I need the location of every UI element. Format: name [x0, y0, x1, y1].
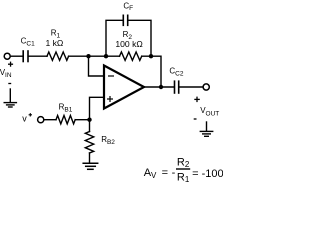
capacitor CC2 [175, 81, 179, 93]
wire CC1 to R1 [29, 55, 47, 57]
wire RB2 to ground [89, 153, 91, 163]
svg-text:=: = [162, 167, 168, 179]
svg-text:1 kΩ: 1 kΩ [45, 38, 63, 48]
svg-text:100 kΩ: 100 kΩ [115, 39, 143, 49]
node dot feedback left [104, 54, 108, 58]
op-amp plus sign [108, 97, 113, 102]
op-amp minus sign [109, 75, 114, 77]
wire non-inverting input [90, 97, 104, 119]
ground input source [4, 89, 16, 107]
wire RB1 to node [75, 119, 89, 121]
wire R1 to feedback node [69, 55, 120, 57]
wire input to CC1 [11, 55, 23, 57]
wire feedback right vertical [129, 20, 151, 56]
wire inverting input [89, 56, 104, 76]
resistor RB2 [85, 132, 93, 154]
wire output [144, 86, 174, 88]
equation fraction bar [176, 168, 190, 170]
resistor R1 [47, 52, 69, 60]
resistor R2 [120, 52, 142, 60]
node dot inverting tap [86, 54, 90, 58]
capacitor CF [123, 15, 127, 25]
resistor RB1 [56, 116, 75, 124]
label VOUT plus [194, 97, 200, 103]
node dot bias [87, 118, 91, 122]
svg-text:v: v [22, 114, 27, 124]
label VIN plus [8, 62, 13, 67]
node dot output junction [159, 85, 163, 89]
wire feedback left vertical [106, 20, 123, 56]
wire CC2 to output terminal [180, 86, 203, 88]
wire node to RB2 [89, 120, 91, 132]
terminal V+ [38, 117, 44, 123]
ground RB2 [83, 163, 98, 169]
wire R2 to output corner [142, 56, 161, 87]
op-amp U1 [104, 66, 144, 109]
capacitor CC1 [23, 51, 28, 62]
label VIN minus [8, 83, 11, 85]
input terminal VIN [4, 53, 10, 59]
wire V+ to RB1 [44, 119, 56, 121]
ground output [200, 122, 212, 136]
svg-text:-: - [172, 167, 176, 179]
node dot feedback right [149, 54, 153, 58]
svg-text:= -100: = -100 [192, 168, 223, 180]
label VOUT minus [194, 118, 197, 120]
terminal VOUT [203, 84, 209, 90]
